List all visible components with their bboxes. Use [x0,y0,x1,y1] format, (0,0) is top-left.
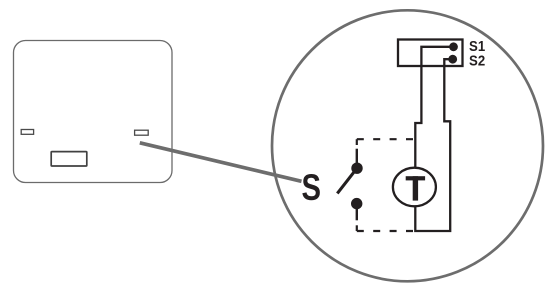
dashed enclosure bottom edge [357,230,416,232]
switch contact lower [351,198,362,209]
svg-text:S2: S2 [469,52,485,69]
letter T bar [406,176,425,180]
switch stub lower [356,204,358,221]
thermostat front panel [14,41,173,183]
switch lever [337,168,357,193]
letter T stem [413,176,418,200]
terminal dot S1 [449,42,458,51]
right slot on panel [135,130,149,135]
terminal dot S2 [448,55,457,64]
terminal block [398,40,463,67]
switch contact upper [351,163,362,174]
wire from S1 terminal and sensor body outline [415,47,453,231]
left slot on panel [21,130,33,135]
dashed enclosure top edge [357,138,416,140]
switch stub upper [356,149,358,168]
magnifier circle [272,10,543,281]
temperature sensor symbol [393,168,436,207]
dashed enclosure top-left corner tick [356,139,358,145]
svg-text:S: S [302,168,321,209]
dashed enclosure bottom-left corner tick [356,225,358,231]
callout leader line [140,143,302,182]
button on panel [51,152,87,166]
